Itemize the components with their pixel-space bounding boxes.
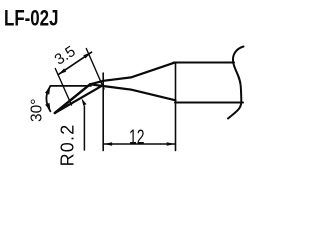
cone bottom edge xyxy=(90,84,176,100)
3.5 dim arrow left xyxy=(58,68,66,74)
3.5 dimension line xyxy=(58,52,91,74)
body top line xyxy=(174,62,235,64)
bent tip upper edge xyxy=(55,84,90,113)
cone top edge xyxy=(90,63,174,85)
R0.2 leader arrow xyxy=(82,98,87,106)
3.5 dim arrow right xyxy=(83,52,91,58)
30 deg horizontal reference line xyxy=(50,85,91,87)
12 dimension line xyxy=(104,143,175,145)
bent tip lower edge xyxy=(55,86,101,113)
R0.2 leader vertical line xyxy=(83,106,85,150)
12 dim arrow left xyxy=(104,142,113,146)
body bottom line xyxy=(175,102,243,104)
12 dim arrow right xyxy=(167,142,176,146)
svg-text:LF-02J: LF-02J xyxy=(4,6,59,31)
svg-text:12: 12 xyxy=(129,127,145,149)
30 deg angle arc xyxy=(46,87,50,112)
svg-text:R0.2: R0.2 xyxy=(58,124,78,166)
30 deg arc arrow top xyxy=(45,86,50,95)
30 deg arc arrow bottom xyxy=(45,103,50,112)
3.5 left extension line xyxy=(55,69,71,106)
body front edge / 12 dim right extension line xyxy=(175,63,177,151)
3.5 right extension line xyxy=(86,49,104,90)
body break S-curve xyxy=(228,47,244,119)
svg-text:30°: 30° xyxy=(28,99,45,122)
12 dim left extension line xyxy=(102,73,104,151)
